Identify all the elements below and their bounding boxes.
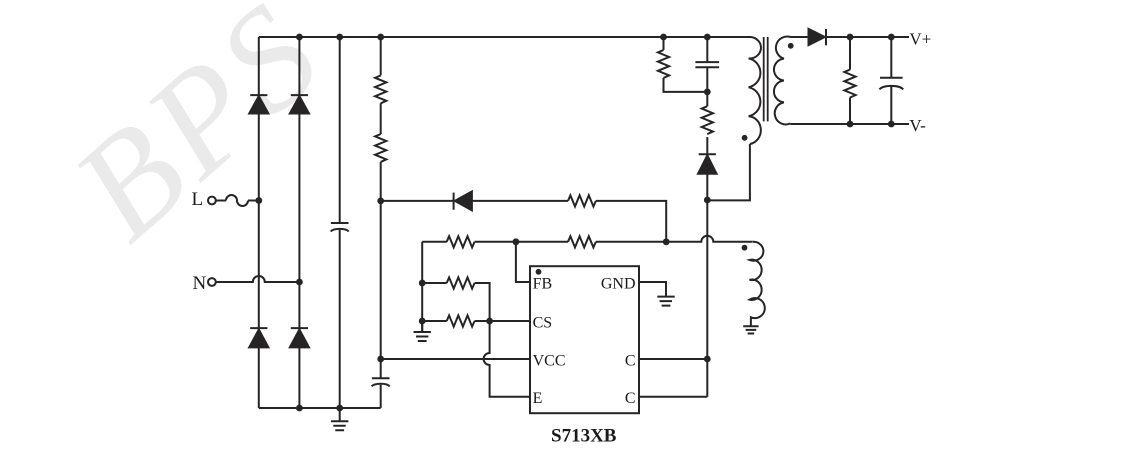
wire: drain vertical line xyxy=(706,37,708,397)
transformer T1 primary polarity dot xyxy=(742,135,748,141)
wire: L lead xyxy=(216,200,226,202)
wire: bulk cap vertical line 3 xyxy=(339,37,341,408)
resistor R5 xyxy=(568,236,596,247)
node: N input junction xyxy=(296,279,303,286)
node: bottom bus / line2 junction xyxy=(296,405,303,412)
node: top bus / line3 junction xyxy=(336,34,343,41)
wire: FB drop from row2 xyxy=(516,242,530,282)
wire: startup vertical line 4 xyxy=(380,37,382,408)
svg-text:CS: CS xyxy=(533,314,553,331)
capacitor C1 xyxy=(331,222,349,224)
svg-text:E: E xyxy=(533,390,543,407)
wire: snubber left leg top xyxy=(663,37,665,50)
capacitor C3 xyxy=(695,62,719,67)
node: drain / primary junction xyxy=(704,197,711,204)
ground (bottom bus) xyxy=(331,421,348,430)
svg-text:GND: GND xyxy=(601,276,636,293)
node: top bus / line4 junction xyxy=(377,34,384,41)
capacitor C2 (VCC cap) xyxy=(372,377,390,379)
transformer T1 primary winding xyxy=(707,37,761,144)
resistor R8 xyxy=(658,50,669,78)
node: CS junction xyxy=(486,318,493,325)
resistor R2 xyxy=(375,134,386,162)
terminal L xyxy=(208,197,216,205)
diode D2 xyxy=(291,94,308,96)
node: C pin / drain junction xyxy=(704,356,711,363)
wire: row2 horizontal start xyxy=(422,241,447,243)
node: top bus / snubber C junction xyxy=(704,34,711,41)
wire: N lead with hop over line1 xyxy=(216,276,300,282)
resistor R10 xyxy=(844,70,855,98)
wire: secondary top xyxy=(791,36,910,38)
IC U1 S713XB xyxy=(530,266,639,413)
diode D7 xyxy=(809,29,825,45)
svg-text:S713XB: S713XB xyxy=(551,426,617,447)
svg-text:VCC: VCC xyxy=(533,352,566,369)
diode D1 xyxy=(250,94,267,96)
wire: R3 to corner down to row2 xyxy=(596,201,666,242)
wire: R6 right corner down to CS row xyxy=(475,283,490,321)
wire: VCC row xyxy=(381,358,530,360)
capacitor C4 xyxy=(880,77,903,79)
fuse F1 xyxy=(226,195,248,206)
wire: R4 to R5 xyxy=(475,241,568,243)
resistor R6 (row3) xyxy=(422,282,447,284)
transformer T1 secondary winding xyxy=(774,37,791,125)
svg-text:C: C xyxy=(625,390,636,407)
node: top bus / line2 junction xyxy=(296,34,303,41)
terminal N xyxy=(208,278,216,286)
wire: top bus xyxy=(259,36,748,38)
resistor R4 xyxy=(447,236,475,247)
resistor R3 xyxy=(568,195,596,206)
resistor R9 xyxy=(702,106,713,134)
diode D5 xyxy=(453,193,455,210)
wire: CS junction down, hop over VCC wire, to E pin xyxy=(484,321,530,397)
wire: output resistor leg xyxy=(849,37,851,124)
node: snubber bottom junction xyxy=(704,89,711,96)
svg-text:V-: V- xyxy=(909,116,926,135)
wire: input vertical line 1 (L leg) xyxy=(258,37,260,408)
svg-text:L: L xyxy=(192,189,204,210)
svg-text:V+: V+ xyxy=(909,30,931,49)
wire: R5 to aux winding with hop over drain line xyxy=(596,236,752,242)
wire: C pin (lower) to drain line xyxy=(639,396,707,398)
transformer T1 auxiliary winding xyxy=(750,242,765,327)
wire: R8 bottom to snubber cap xyxy=(664,78,708,92)
wire: bottom bus xyxy=(259,407,381,409)
ground (GND pin) xyxy=(657,297,674,306)
node: V- rail / R junction xyxy=(847,121,854,128)
svg-text:N: N xyxy=(193,273,207,294)
resistor R1 xyxy=(375,75,386,103)
wire: secondary bottom xyxy=(791,123,910,125)
node: V+ rail / C junction xyxy=(888,34,895,41)
diode D6 xyxy=(699,153,716,155)
node: VCC junction xyxy=(377,356,384,363)
wire: row2 left corner down the bias stack xyxy=(421,242,423,332)
svg-text:FB: FB xyxy=(533,276,553,293)
wire: R7 to CS pin xyxy=(475,320,530,322)
node: top bus / snubber R junction xyxy=(660,34,667,41)
diode D4 xyxy=(291,327,308,329)
node: L input junction xyxy=(255,197,262,204)
wire: drain to primary bottom lead xyxy=(707,144,750,200)
node: row1/row2 junction xyxy=(663,238,670,245)
wire: input vertical line 2 (N leg) xyxy=(298,37,300,408)
node: line4 / row1 junction xyxy=(377,198,384,205)
node: V+ rail / R junction xyxy=(847,34,854,41)
wire: GND pin to ground xyxy=(639,282,666,297)
wire: row1 from line4 to diode D5 xyxy=(381,200,454,202)
wire: C pin (upper) to drain line xyxy=(639,358,707,360)
ground (bias stack) xyxy=(421,321,423,332)
transformer T1 core xyxy=(764,37,768,121)
transformer T1 secondary polarity dot xyxy=(788,43,794,49)
resistor R7 (CS row) xyxy=(422,320,447,322)
diode D3 xyxy=(250,327,267,329)
transformer T1 aux polarity dot xyxy=(742,245,748,251)
IC U1 pin-1 dot xyxy=(536,269,542,275)
wire: output cap leg xyxy=(890,37,892,124)
node: FB divider junction xyxy=(513,238,520,245)
svg-text:C: C xyxy=(625,352,636,369)
capacitor C1 ground leg / bulk ground xyxy=(339,408,341,421)
node: V- rail / C junction xyxy=(888,121,895,128)
ground (aux winding) xyxy=(743,326,758,333)
node: bias stack lower junction xyxy=(419,318,426,325)
node: bottom bus / ground junction xyxy=(336,405,343,412)
node: bias stack upper junction xyxy=(419,280,426,287)
wire: fuse to line1 xyxy=(248,200,259,202)
wire: D5 to R3 xyxy=(472,200,568,202)
